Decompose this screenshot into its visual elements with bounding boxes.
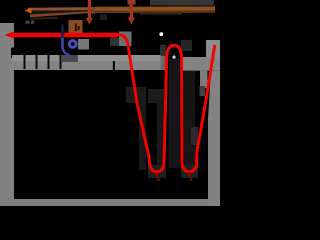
small dash pair on beam left — [26, 21, 30, 24]
shadow column right loop — [184, 71, 195, 168]
hanger cord 2 head — [128, 18, 135, 25]
red cord system (heddle loops) — [117, 35, 215, 172]
hanger cord 2 top cap — [128, 0, 136, 5]
left frame post — [0, 23, 14, 206]
beam end connector — [92, 7, 95, 14]
batten pivot dark side — [110, 38, 119, 47]
cloth slab fade — [200, 86, 206, 96]
warp sheet left upper highlight — [12, 55, 161, 61]
warp gap mark far — [113, 55, 115, 70]
shadow behind left hook — [148, 165, 166, 178]
warp gap marks — [24, 55, 26, 69]
overhead rail (right, thicker) — [95, 6, 215, 13]
batten pivot block — [119, 32, 132, 47]
warp sheet left — [12, 55, 161, 70]
cloth beam block (gray, right of pulley) — [78, 39, 89, 50]
overhead beam lower rod (slanted) — [30, 11, 92, 17]
small shadow patch right — [191, 127, 198, 145]
breast block dark mark 1 — [75, 24, 77, 32]
dark block above right warp — [181, 40, 192, 51]
hanger cord 1 (brick arrow down) shaft — [88, 0, 91, 19]
shed white dot — [159, 32, 163, 36]
warp sheet right — [183, 57, 220, 71]
shadow behind right hook — [181, 165, 198, 178]
rail lower dark stripe — [95, 10, 215, 13]
hanger cord 1 head — [86, 18, 93, 25]
warp sheet dim tail — [161, 56, 167, 71]
pulley wheel — [68, 39, 78, 49]
dark patch below rail left — [100, 15, 107, 21]
tick below right hook — [188, 172, 190, 176]
weft red line (thick horizontal) — [12, 33, 118, 37]
rail under-shadow — [140, 12, 182, 14]
shadow column between loop legs — [169, 59, 180, 168]
dark patch left of arch — [160, 45, 166, 55]
heddle eye white dot — [172, 55, 175, 58]
pulley hub hole — [71, 42, 75, 46]
breast block under rail — [69, 20, 83, 33]
cloth slab below right warp — [200, 71, 208, 88]
heddle shaft shadow B — [148, 89, 164, 103]
pulley cord upper (dark navy) — [61, 25, 64, 39]
top rail shadow strip — [150, 0, 214, 6]
tick below left hook — [156, 172, 158, 176]
hanger cord 2 shaft — [130, 0, 133, 18]
pulley cord arrow tip — [68, 53, 72, 58]
breast block dark mark 2 — [78, 26, 80, 30]
pulley cord J-curve — [63, 38, 70, 55]
dark warp segment — [62, 55, 78, 62]
floor bar — [0, 199, 220, 206]
notch in left post — [11, 48, 14, 59]
right frame post — [208, 71, 220, 206]
weft arrowhead left — [5, 31, 15, 38]
tail below right hook — [189, 176, 192, 181]
tail below left hook — [157, 176, 160, 181]
heddle shaft shadow A — [126, 87, 146, 103]
beam shadow stroke below — [30, 17, 58, 20]
overhead beam top rod — [28, 7, 94, 11]
beam inner dark gap — [30, 11, 90, 15]
right top block — [206, 40, 220, 57]
orange arrow tip on beam — [25, 7, 32, 13]
